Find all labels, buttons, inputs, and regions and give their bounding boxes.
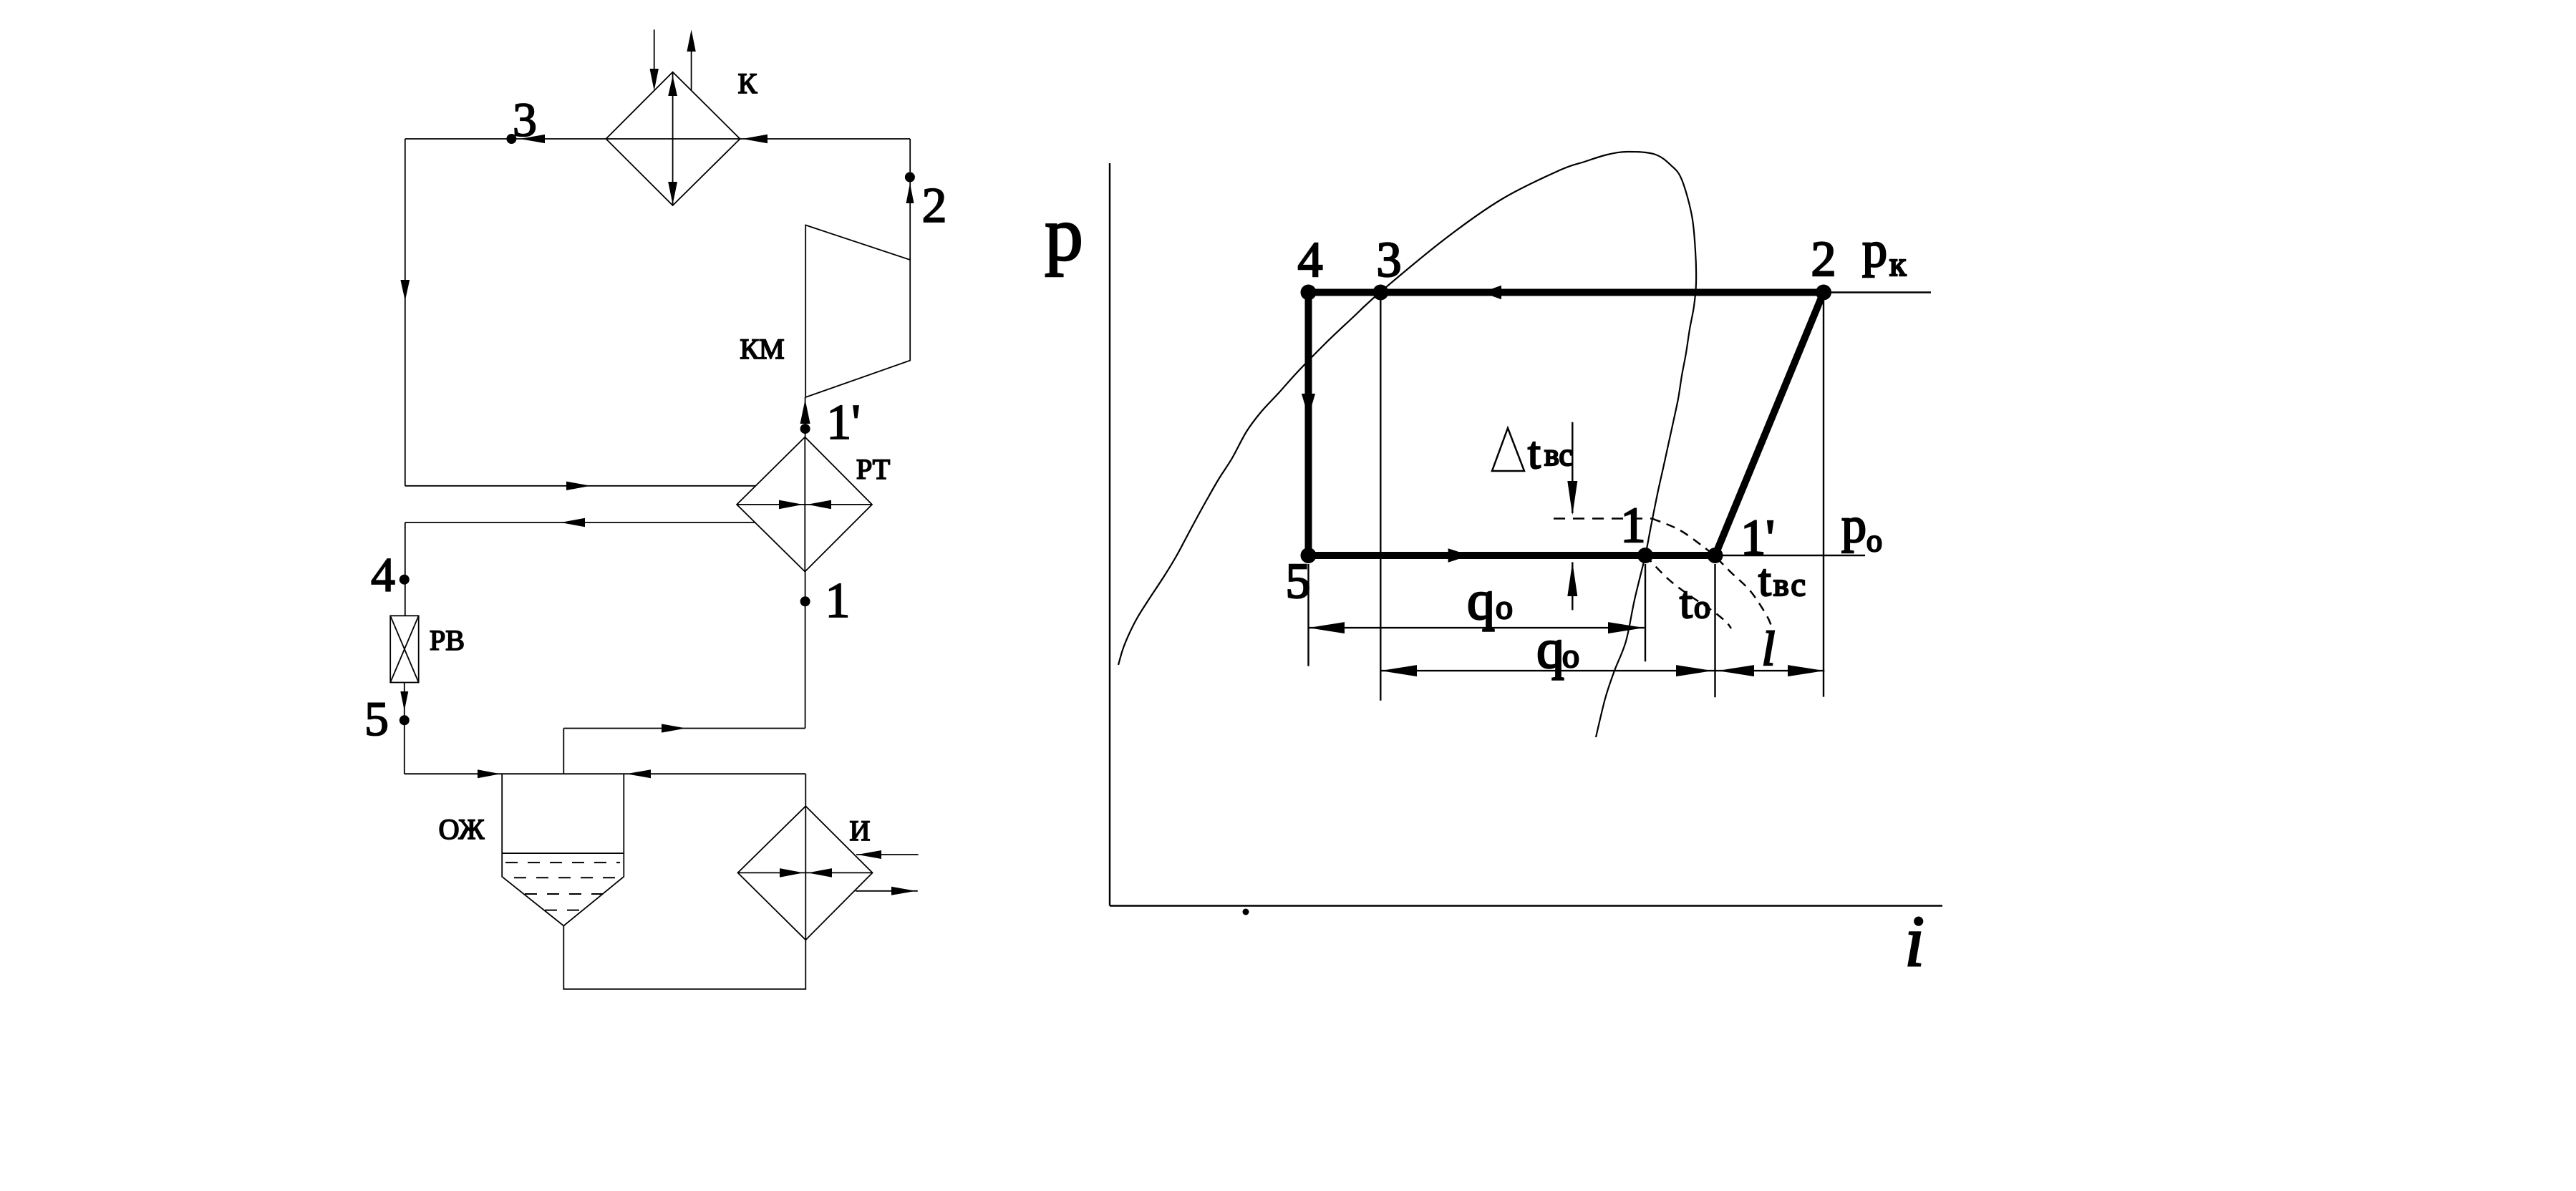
isotherm t_vs dashed arc through 1' xyxy=(1652,519,1772,626)
svg-text:3: 3 xyxy=(1377,233,1402,288)
arrow down on left vertical xyxy=(400,280,410,301)
svg-text:1: 1 xyxy=(825,573,851,628)
arrow left on top isobar xyxy=(1482,286,1501,300)
expansion valve RV rectangle with X xyxy=(390,616,419,682)
svg-text:И: И xyxy=(850,815,871,847)
wire: main top pipe 2->K->3 at y=194 xyxy=(405,138,910,140)
svg-text:о: о xyxy=(1694,588,1710,625)
I inner left-pointing arrow xyxy=(808,868,832,878)
svg-text:вс: вс xyxy=(1773,566,1808,603)
node 2 xyxy=(905,172,915,183)
isotherm t_vs dashed horizontal segment xyxy=(1554,517,1652,520)
delta t_vs dimension vertical line xyxy=(1572,422,1573,513)
I horizontal diagonal xyxy=(738,872,873,873)
wire: lower pipe out of RT xyxy=(405,522,755,523)
svg-text:t: t xyxy=(1680,577,1693,628)
extension line under 2 xyxy=(1823,293,1824,697)
arrow left into vessel xyxy=(626,769,651,778)
extension line under 1' xyxy=(1714,564,1715,697)
extension line under 5 xyxy=(1307,564,1309,666)
svg-text:вс: вс xyxy=(1544,437,1573,472)
arrow right into vessel xyxy=(478,769,500,778)
cycle: subcooling line 4->5 (thick) xyxy=(1305,293,1312,556)
wire: liquid feed loop from vessel cone to evaporator bottom xyxy=(563,926,805,989)
dimension line l (1' to 2) xyxy=(1715,670,1825,671)
RT inner right-pointing arrow xyxy=(779,500,803,510)
node 1' xyxy=(1708,548,1723,563)
arrow left on lower RT pipe xyxy=(561,518,585,527)
wire: vertical suction to RT bottom xyxy=(805,572,806,729)
node 5 xyxy=(400,715,410,725)
wire: horizontal suction run to RT xyxy=(563,728,805,729)
wire: below valve to node 5 xyxy=(404,683,405,774)
svg-text:p: p xyxy=(1045,192,1083,277)
external medium outlet of I with right arrow xyxy=(856,890,918,892)
RT horizontal diagonal xyxy=(737,504,872,505)
svg-text:i: i xyxy=(1904,901,1924,982)
svg-text:К: К xyxy=(738,67,757,99)
arrow up toward node 2 xyxy=(906,183,914,203)
node 4 xyxy=(400,575,410,585)
wire: left vertical pipe from 3 down xyxy=(405,139,406,486)
wire: vertical pipe down to expansion valve xyxy=(405,522,406,616)
condenser K diamond xyxy=(606,72,740,205)
svg-text:о: о xyxy=(1496,588,1513,626)
cycle: top isobar 2->3->4 (thick) xyxy=(1309,289,1824,296)
dimension line q_o (3 to 1') xyxy=(1380,670,1715,671)
air inlet line above K with down arrow xyxy=(654,29,655,80)
wire: suction stub from RT top to compressor xyxy=(805,397,806,437)
cycle: compression line 1'->2 (thick) xyxy=(1715,293,1824,556)
svg-text:к: к xyxy=(1889,246,1907,283)
svg-text:2: 2 xyxy=(1811,232,1836,287)
svg-text:t: t xyxy=(1528,427,1541,478)
I vertical diagonal xyxy=(805,806,806,940)
arrow right on upper RT pipe xyxy=(566,482,591,490)
vessel liquid dashes row4 xyxy=(545,910,584,911)
svg-text:РВ: РВ xyxy=(430,624,465,656)
svg-text:3: 3 xyxy=(513,92,537,147)
isotherm t_o dashed arc from 1 xyxy=(1645,555,1731,628)
saturation dome curve xyxy=(1118,152,1696,737)
regenerative heat exchanger RT diamond xyxy=(737,437,872,572)
p axis (vertical) xyxy=(1109,163,1110,906)
svg-text:5: 5 xyxy=(1286,554,1311,609)
wire arrow into K (pointing left) xyxy=(742,135,768,143)
p_o reference line (thin) xyxy=(1715,555,1866,556)
wire: vapor riser from vessel xyxy=(563,729,564,774)
svg-text:q: q xyxy=(1536,618,1564,680)
stray dot on axis xyxy=(1243,909,1249,915)
wire: pipe from evaporator top into vessel xyxy=(624,773,805,774)
node 2 xyxy=(1816,285,1831,301)
node 4 xyxy=(1301,285,1317,301)
delta triangle glyph xyxy=(1492,428,1524,471)
dimension line q_o (5 to 1) xyxy=(1309,627,1645,628)
vessel liquid level line xyxy=(502,852,624,854)
svg-text:о: о xyxy=(1562,637,1579,675)
arrow up toward compressor at 1' xyxy=(800,399,810,424)
svg-text:4: 4 xyxy=(371,548,395,602)
compressor KM trapezoid xyxy=(805,225,910,398)
svg-text:l: l xyxy=(1762,621,1776,676)
delta t_vs up arrow xyxy=(1567,562,1577,596)
wire: pipe from 5 into vessel xyxy=(405,773,502,774)
extension line under 1 xyxy=(1645,564,1646,661)
external medium inlet to I with left arrow xyxy=(856,854,919,855)
node 1 xyxy=(1637,548,1653,563)
node 1 xyxy=(800,596,810,606)
svg-text:t: t xyxy=(1758,555,1771,606)
svg-text:ОЖ: ОЖ xyxy=(439,813,485,845)
node 1' xyxy=(800,424,810,434)
air outlet line above K with up arrow xyxy=(691,39,692,90)
arrow right on bottom isobar xyxy=(1448,548,1470,563)
RT inner left-pointing arrow xyxy=(808,500,832,510)
svg-text:4: 4 xyxy=(1298,233,1323,288)
node 5 xyxy=(1301,548,1317,563)
svg-text:p: p xyxy=(1841,498,1866,553)
evaporator I diamond xyxy=(738,806,873,940)
svg-text:1': 1' xyxy=(826,395,861,450)
svg-text:1: 1 xyxy=(1621,498,1646,553)
svg-text:КМ: КМ xyxy=(740,333,784,365)
svg-text:p: p xyxy=(1862,223,1887,278)
wire: right vertical pipe from main line down to compressor xyxy=(909,139,911,260)
condenser K inner down arrow xyxy=(668,182,677,205)
vessel liquid dashes row3 xyxy=(525,893,603,895)
liquid separator OZh vessel xyxy=(502,774,624,925)
arrow down toward node 5 xyxy=(400,691,408,711)
wire: vertical from pipe down to evaporator top xyxy=(805,774,806,806)
extension line under 3 xyxy=(1380,293,1381,701)
i axis (horizontal) xyxy=(1110,905,1942,906)
RT vertical diagonal xyxy=(804,437,805,572)
vessel liquid dashes row2 xyxy=(514,877,621,878)
svg-text:q: q xyxy=(1467,569,1495,631)
condenser K inner up arrow xyxy=(668,76,677,96)
arrow at node 3 (pointing left) xyxy=(520,135,545,143)
cycle: bottom isobar 5->1->1' (thick) xyxy=(1309,552,1715,559)
I inner right-pointing arrow xyxy=(780,868,803,878)
svg-text:2: 2 xyxy=(922,178,947,233)
arrow right on suction run xyxy=(662,724,686,732)
node 3 xyxy=(506,134,516,144)
arrow down on 4->5 xyxy=(1302,394,1315,417)
svg-text:о: о xyxy=(1866,523,1882,558)
delta t_vs down arrow xyxy=(1567,481,1577,515)
p_k reference line (thin) xyxy=(1824,291,1931,293)
svg-text:РТ: РТ xyxy=(856,453,890,485)
wire: upper pipe into RT xyxy=(405,485,756,487)
condenser K vertical diagonal xyxy=(672,72,674,205)
vessel liquid dashes row1 xyxy=(505,862,620,863)
node 3 xyxy=(1372,285,1388,301)
svg-text:5: 5 xyxy=(364,691,389,746)
